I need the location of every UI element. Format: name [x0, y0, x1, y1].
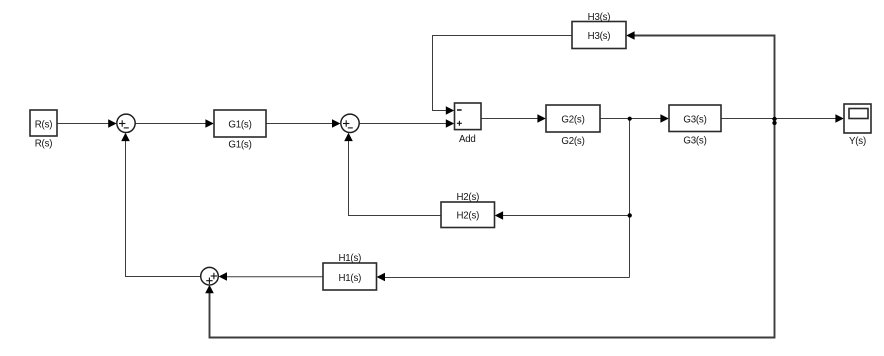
- svg-text:H2(s): H2(s): [456, 211, 479, 222]
- svg-text:R(s): R(s): [35, 139, 53, 150]
- svg-text:G3(s): G3(s): [683, 114, 706, 125]
- svg-text:G1(s): G1(s): [228, 140, 251, 151]
- svg-text:G1(s): G1(s): [228, 119, 251, 130]
- svg-text:G2(s): G2(s): [561, 115, 584, 126]
- svg-text:R(s): R(s): [35, 119, 53, 130]
- svg-text:H3(s): H3(s): [588, 31, 611, 42]
- svg-text:H1(s): H1(s): [338, 273, 361, 284]
- svg-text:Add: Add: [459, 134, 476, 145]
- svg-text:H1(s): H1(s): [338, 253, 361, 264]
- svg-text:G2(s): G2(s): [561, 136, 584, 147]
- svg-text:Y(s): Y(s): [849, 136, 866, 147]
- svg-text:G3(s): G3(s): [683, 135, 706, 146]
- svg-text:H3(s): H3(s): [588, 12, 611, 23]
- svg-text:H2(s): H2(s): [456, 192, 479, 203]
